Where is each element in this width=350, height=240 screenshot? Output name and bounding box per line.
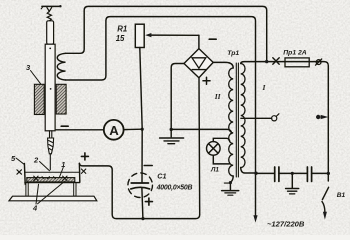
label plus bath (81, 153, 88, 160)
node dot ground left (170, 128, 173, 131)
mains arrow left (253, 215, 257, 222)
C1 bottom lead (142, 188, 143, 219)
switch arrow lead (322, 202, 325, 213)
R1 bottom lead (140, 48, 142, 130)
svg-text:Пр1 2А: Пр1 2А (283, 49, 306, 56)
winding I bottom lead (241, 168, 256, 174)
capacitor bus wire (256, 172, 328, 174)
bath tank right wall (78, 163, 80, 182)
bridge top lead (198, 35, 200, 48)
switch B1 stub (327, 173, 329, 181)
node dot mains junction (254, 172, 257, 175)
stub left of node (224, 182, 230, 184)
R1 wiper arrow wire (145, 33, 199, 37)
electrode holder upper rod (47, 21, 54, 44)
wire node to winding II top (171, 129, 231, 133)
lamp bottom lead (213, 155, 229, 164)
tank leg left (26, 183, 28, 197)
connector circle after fuse (316, 59, 322, 65)
capacitor Cb plates (307, 167, 311, 181)
node dot top bus to fuse wire (265, 60, 268, 63)
chuck stem (50, 131, 52, 138)
wire coil top to top bus (66, 6, 267, 61)
support x on slab left (34, 176, 38, 180)
leader 4a (36, 184, 39, 204)
bridge plus label (203, 77, 210, 84)
resistor R1 (135, 24, 144, 47)
C1 plus (145, 198, 152, 205)
solenoid coil L (57, 53, 65, 80)
transformer Tp1 core (236, 63, 238, 177)
bridge left lead to ground (171, 64, 184, 130)
leader 4b (38, 182, 65, 204)
leader 5 (16, 158, 24, 164)
svg-text:C1: C1 (157, 172, 166, 181)
C1 bottom plate arc (131, 187, 150, 189)
leader 3 (31, 71, 41, 84)
workpiece slab 1 (hatched) (27, 178, 75, 182)
socket terminal circle (272, 114, 279, 121)
winding I (right) (241, 64, 245, 168)
slab ticks (42, 177, 56, 179)
svg-text:Л1: Л1 (210, 166, 219, 173)
bridge diode triangle (192, 58, 206, 68)
svg-text:4: 4 (32, 204, 38, 213)
C1 top plate (131, 182, 148, 184)
bath tank left wall (23, 164, 26, 185)
bath tank bottom (25, 182, 80, 184)
pivot dot lower (50, 88, 52, 90)
label minus at holder (61, 125, 68, 127)
ground G1 (160, 129, 184, 143)
node dot right wire (327, 172, 330, 175)
base plate (9, 196, 97, 201)
bridge right lead to transformer (213, 62, 233, 68)
svg-text:~127/220В: ~127/220В (267, 220, 305, 229)
node dot C1 bottom (141, 217, 144, 220)
spring (47, 11, 51, 20)
mains arrow right (323, 212, 327, 220)
plug terminal on right wire (316, 115, 328, 119)
svg-text:2: 2 (33, 155, 39, 164)
lamp top lead (213, 138, 230, 142)
coil core block right (hatched) (56, 84, 66, 114)
svg-text:В1: В1 (337, 192, 346, 199)
winding II bottom lead (230, 176, 233, 190)
ammeter A (104, 120, 124, 140)
clamp x on fuse wire (273, 58, 279, 64)
clamp x right rim (81, 169, 85, 173)
svg-text:A: A (109, 123, 119, 138)
C1 top lead (141, 129, 143, 183)
svg-text:II: II (214, 92, 222, 101)
wire coil bottom to second bus (66, 17, 256, 217)
switch B1 blade (322, 187, 328, 199)
leader 1 (60, 168, 64, 178)
node dot R1/C1 (141, 128, 144, 131)
electrode holder body (45, 44, 55, 131)
capacitor C1 dashed circle (128, 173, 153, 198)
winding II (left) (229, 68, 234, 176)
coil core block left (hatched) (34, 84, 44, 114)
svg-text:15: 15 (116, 34, 125, 43)
C1 minus (144, 165, 152, 167)
capacitor Ca plates (275, 167, 279, 181)
electrode needle 2 (49, 154, 51, 170)
spring support bar (41, 5, 61, 9)
svg-text:4000,0×50В: 4000,0×50В (156, 184, 193, 191)
node dot ground mid (291, 172, 294, 175)
node dot winding II bottom (229, 181, 232, 184)
svg-text:R1: R1 (117, 24, 127, 33)
ground G3 (286, 173, 299, 194)
liquid level (25, 171, 80, 173)
tap wire to socket (241, 117, 272, 119)
wire ammeter to node (124, 128, 143, 130)
svg-text:Тр1: Тр1 (227, 50, 239, 57)
bridge diode bar (192, 69, 205, 71)
clamp x left rim (17, 170, 22, 174)
bridge rectifier diamond (184, 49, 213, 78)
chuck collet (48, 138, 54, 154)
pivot dot upper (49, 48, 51, 50)
fuse wire from winding I top (241, 62, 329, 174)
bridge minus label (209, 38, 216, 40)
wire bath plus rail to bridge plus (79, 78, 199, 219)
fuse Pr1 (285, 58, 309, 67)
lamp L1 (207, 142, 221, 156)
spring hook (47, 7, 52, 11)
tank leg right (74, 183, 76, 197)
support x on slab right (63, 176, 67, 180)
leader 2 (40, 162, 50, 171)
ground G2 (222, 191, 239, 196)
wire holder to ammeter (56, 129, 104, 131)
